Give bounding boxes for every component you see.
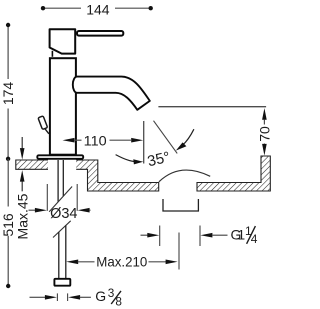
svg-text:Max.210: Max.210: [96, 253, 147, 269]
svg-text:G: G: [95, 288, 106, 304]
spout outlet level line (right surface line): [158, 106, 266, 108]
supply hose upper-left line: [57, 160, 59, 202]
G1 1/4 extension tick right: [199, 226, 201, 247]
lever handle: [77, 31, 123, 36]
spout outlet extension line: [143, 121, 145, 164]
svg-text:144: 144: [86, 1, 110, 17]
dimension 516 end dot: [6, 284, 10, 288]
supply hose upper-right line: [62, 160, 64, 196]
Max.45 up arrow: [21, 181, 23, 191]
svg-text:3: 3: [108, 286, 115, 300]
G1 1/4 right arrow: [200, 233, 212, 238]
dimension 70 top arrow: [262, 108, 267, 120]
head chamfer inner edge: [51, 51, 53, 57]
dimension 174 end dots: [6, 23, 10, 27]
G3/8 extension tick right: [67, 293, 69, 301]
basin far-rim arc over drain: [159, 170, 210, 182]
dimension 70 bottom arrow: [263, 144, 265, 145]
svg-text:Ø34: Ø34: [50, 206, 77, 222]
dimension 110 right arrow: [110, 139, 132, 141]
faucet body column: [50, 58, 76, 155]
Max.45 down arrow: [21, 137, 23, 149]
35-degree leader arrow right: [183, 129, 194, 145]
break diagonal 2: [53, 221, 71, 238]
cartridge head: [50, 29, 76, 53]
svg-text:Max.45: Max.45: [15, 193, 31, 239]
svg-text:110: 110: [84, 133, 107, 149]
35-degree stream diagonal: [154, 121, 178, 154]
G1 1/4 left arrow: [141, 234, 149, 236]
drain flange bracket: [163, 199, 198, 211]
Ø34 left arrow: [29, 209, 36, 211]
dimension 174 line: [7, 25, 9, 79]
supply hose lower-right line: [65, 225, 67, 278]
supply hose lower-left line: [58, 232, 60, 278]
side knob stem line: [45, 129, 49, 134]
faucet mounting hole (white gap in deck): [48, 159, 76, 171]
G3/8 right arrow: [68, 295, 80, 300]
Max.210 left arrow: [66, 260, 78, 265]
Ø34 extension tick left: [46, 184, 48, 211]
countertop left section (hatched deck + step wall + basin floor): [16, 160, 159, 191]
dimension 144 end dots: [41, 6, 45, 10]
dimension 516 line: [7, 159, 9, 207]
G3/8 left arrow: [30, 296, 46, 298]
svg-text:174: 174: [0, 82, 16, 106]
drain centerline: [178, 233, 180, 270]
Max.210 right arrow: [149, 261, 167, 263]
G3/8 extension tick left: [56, 293, 58, 301]
countertop right section (basin floor + right rim wall): [197, 156, 270, 191]
svg-text:70: 70: [257, 126, 272, 142]
Ø34 extension tick right: [76, 184, 78, 211]
base plate: [37, 155, 83, 159]
G3/8 end fitting block: [54, 279, 70, 286]
break diagonal 1: [49, 187, 72, 212]
side knob on body: [38, 116, 48, 130]
dimension 110 left arrow (to faucet axis): [63, 138, 75, 143]
G1 1/4 extension tick left: [159, 226, 161, 247]
dimension 144 line: [43, 7, 81, 9]
Ø34 right arrow: [78, 208, 90, 213]
spout (rounded cap + curved tube): [73, 77, 150, 110]
35-degree leader arrow left: [116, 155, 135, 162]
